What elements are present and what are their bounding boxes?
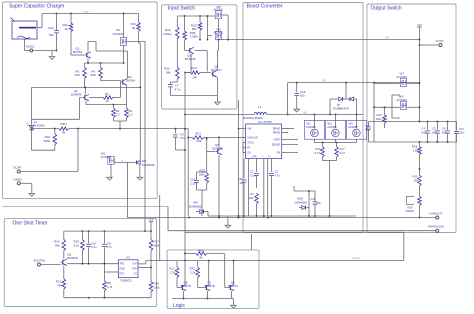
mosfet W2 AO3488 — [325, 121, 345, 140]
svg-text:DAN6638L: DAN6638L — [295, 201, 308, 205]
wire — [77, 129, 79, 172]
wire bottom rail — [208, 215, 356, 217]
wire — [127, 162, 129, 217]
mosfet W2 AO3488 — [101, 151, 115, 177]
svg-text:2.2n: 2.2n — [190, 182, 196, 186]
svg-text:PWRGOOD: PWRGOOD — [428, 225, 445, 229]
svg-text:R3: R3 — [105, 92, 109, 96]
ground — [225, 216, 231, 228]
svg-text:W10: W10 — [297, 197, 303, 201]
wire — [41, 264, 61, 266]
svg-text:U3: U3 — [126, 256, 130, 260]
svg-text:BC847B: BC847B — [181, 284, 191, 288]
svg-text:100u: 100u — [432, 132, 438, 135]
svg-text:BC847B: BC847B — [67, 256, 78, 260]
wire — [150, 251, 152, 281]
wire loop — [88, 42, 128, 79]
resistor R17 0.47 — [335, 143, 346, 158]
wire vertical 189 — [187, 129, 189, 216]
svg-text:56u: 56u — [49, 33, 54, 37]
wire u3 out — [138, 261, 164, 264]
svg-text:DAN6638L: DAN6638L — [189, 205, 203, 209]
wire — [150, 292, 152, 298]
wire — [71, 54, 85, 56]
svg-text:SENSE: SENSE — [272, 144, 281, 147]
svg-text:100k: 100k — [376, 117, 382, 121]
transistor Q1 BC854 — [73, 47, 91, 59]
wire caps top — [369, 121, 457, 123]
svg-text:20k: 20k — [249, 196, 254, 200]
resistor R20 98k — [164, 39, 179, 79]
resistor R22b 100k — [199, 169, 209, 184]
wire — [197, 172, 207, 177]
svg-text:R26: R26 — [198, 249, 204, 253]
ground — [215, 102, 221, 105]
terminal SHUTDN — [33, 259, 45, 266]
svg-text:R3N: R3N — [61, 122, 67, 126]
wire — [25, 39, 30, 51]
wire input rail — [177, 15, 215, 17]
wire — [419, 39, 421, 41]
svg-text:TRG: TRG — [120, 264, 125, 266]
wire 232 — [185, 231, 404, 233]
svg-text:C12: C12 — [311, 197, 316, 201]
svg-text:PRGM: PRGM — [273, 132, 280, 135]
resistor R1B 98k — [191, 16, 202, 31]
svg-text:Q7: Q7 — [207, 280, 211, 284]
wire — [85, 45, 125, 63]
svg-text:GND: GND — [120, 269, 125, 271]
diode W6 DAN6638L — [136, 159, 155, 167]
transistor Q9 BC847C — [228, 280, 238, 290]
resistor R16 1.5Meg — [163, 16, 180, 39]
svg-text:10u: 10u — [300, 94, 305, 98]
svg-text:22n: 22n — [317, 201, 322, 205]
svg-text:SHUTDN: SHUTDN — [33, 259, 45, 263]
capacitor C8c 4.7u — [102, 231, 112, 264]
wire — [294, 186, 315, 192]
wire top rail — [42, 11, 139, 15]
capacitor C3 4.7u — [269, 159, 280, 217]
wire — [374, 83, 420, 85]
terminal SCAP — [13, 166, 21, 173]
svg-text:+5V: +5V — [417, 23, 422, 27]
svg-text:+5V: +5V — [148, 218, 153, 222]
wire caps bottom — [369, 141, 457, 146]
wire — [323, 157, 337, 216]
wire — [70, 32, 72, 56]
svg-text:R23: R23 — [377, 113, 383, 117]
wire — [85, 79, 121, 97]
wire — [126, 85, 128, 105]
svg-text:100k: 100k — [199, 173, 206, 177]
capacitor C4 47u — [173, 129, 185, 146]
svg-text:L2: L2 — [34, 120, 38, 124]
svg-text:9k: 9k — [199, 255, 203, 259]
svg-text:5.1k: 5.1k — [74, 244, 80, 248]
svg-text:24k: 24k — [192, 75, 197, 79]
svg-text:CV: CV — [134, 274, 138, 276]
power +5V out — [417, 23, 422, 40]
svg-text:0.47: 0.47 — [315, 151, 321, 155]
svg-text:4.7u: 4.7u — [107, 245, 113, 249]
svg-text:Boost Converter: Boost Converter — [247, 3, 283, 9]
transistor Q2 BC847B — [71, 87, 89, 100]
svg-text:R21: R21 — [196, 131, 202, 135]
svg-text:22R: 22R — [75, 73, 80, 77]
svg-text:TS555CD: TS555CD — [120, 279, 132, 283]
wire — [32, 87, 80, 150]
diode W9 DAN6638L — [189, 201, 208, 217]
mosfet W4 AO3401 — [214, 28, 224, 40]
svg-text:U1 LT3756: U1 LT3756 — [258, 120, 272, 124]
wire — [184, 253, 195, 255]
svg-text:9k: 9k — [132, 26, 136, 30]
wire vertical 243 — [242, 143, 244, 153]
resistor R16b 0.47 — [315, 143, 325, 158]
wire riser 159.7 — [159, 195, 161, 261]
ground — [49, 57, 55, 60]
mosfet W3 AO3488 — [346, 121, 366, 140]
svg-text:GND2: GND2 — [13, 177, 22, 181]
wire ic left pins — [238, 128, 246, 153]
wire — [21, 171, 79, 173]
svg-text:R16: R16 — [165, 28, 171, 32]
wire — [218, 138, 220, 149]
svg-text:BC847B: BC847B — [205, 284, 215, 288]
resistor R22 520k — [44, 129, 57, 145]
wire — [207, 254, 228, 288]
svg-text:C4: C4 — [422, 127, 426, 131]
svg-text:GND: GND — [252, 156, 257, 158]
svg-text:D7: D7 — [337, 103, 341, 107]
svg-text:L1: L1 — [258, 105, 262, 109]
svg-text:Super Capacitor Charger: Super Capacitor Charger — [9, 4, 65, 10]
svg-text:C8: C8 — [366, 124, 370, 128]
wire — [216, 77, 218, 102]
svg-text:15k: 15k — [414, 179, 419, 183]
wire — [218, 155, 220, 216]
wire — [115, 161, 137, 163]
led L2 — [26, 120, 45, 130]
wire — [217, 19, 219, 32]
resistor R31 — [131, 14, 141, 32]
svg-text:82R: 82R — [91, 73, 96, 77]
svg-text:VIN: VIN — [247, 128, 251, 131]
svg-text:BC847B: BC847B — [71, 92, 82, 96]
svg-text:SD: SD — [247, 152, 251, 155]
resistor R1 2.2 — [112, 108, 121, 118]
svg-text:R24: R24 — [191, 66, 197, 70]
capacitor C12 22n — [311, 191, 322, 216]
resistor R14 94k — [54, 231, 66, 251]
frame One Shot Timer — [4, 219, 156, 307]
svg-text:BC854: BC854 — [73, 50, 83, 54]
mosfet W1 AO3488 — [304, 121, 324, 140]
svg-text:2.2k: 2.2k — [170, 271, 176, 275]
svg-text:THR: THR — [132, 269, 137, 271]
wire — [198, 278, 204, 288]
wire — [185, 40, 188, 50]
svg-text:100k: 100k — [154, 244, 161, 248]
svg-text:520k: 520k — [44, 139, 51, 143]
wire — [64, 289, 151, 298]
wire — [184, 261, 186, 285]
transistor Q3 BC854 — [121, 75, 135, 85]
capacitor C2 0.1u — [250, 159, 259, 189]
svg-text:RST: RST — [120, 274, 125, 276]
svg-text:SC: SC — [121, 161, 124, 163]
svg-text:1u: 1u — [240, 181, 244, 185]
svg-text:Output Switch: Output Switch — [371, 6, 402, 12]
transistor Q8 BC847B — [181, 280, 191, 290]
svg-text:100u: 100u — [459, 132, 465, 135]
svg-text:GND1: GND1 — [26, 45, 35, 49]
svg-text:FLASHG2: FLASHG2 — [34, 125, 46, 128]
wire — [197, 183, 207, 216]
capacitor C7 4.7u — [168, 79, 181, 92]
wire vertical 238.5 — [238, 100, 240, 216]
mosfet W7 AO3401 — [113, 14, 127, 46]
svg-text:SCAP: SCAP — [13, 166, 21, 170]
wire logic in — [164, 258, 404, 262]
wire — [403, 232, 405, 260]
svg-text:DRIVE: DRIVE — [273, 128, 281, 131]
svg-text:98k: 98k — [192, 27, 197, 31]
svg-text:4.7u: 4.7u — [175, 87, 181, 91]
wire bypass — [392, 95, 400, 118]
resistor R12 70k — [56, 279, 66, 290]
frame Logic — [167, 250, 259, 309]
ic U1 LT3756 — [246, 120, 282, 159]
wire — [37, 14, 42, 28]
wire — [419, 217, 436, 219]
photovoltaic cell PV1 — [11, 18, 38, 40]
wire — [31, 128, 59, 130]
wire — [187, 137, 238, 139]
svg-text:OUT: OUT — [132, 264, 137, 266]
resistor R3N 9k — [59, 122, 69, 135]
capacitor C34 — [48, 14, 59, 51]
resistor R2B 2.5M — [183, 16, 198, 40]
svg-text:70k: 70k — [57, 284, 62, 288]
svg-text:Input Switch: Input Switch — [168, 6, 195, 12]
svg-text:0.1u: 0.1u — [250, 174, 256, 178]
capacitor C16 10u — [294, 83, 305, 110]
svg-text:100u: 100u — [442, 132, 448, 135]
wire — [114, 118, 127, 129]
svg-text:AO3401: AO3401 — [113, 32, 124, 36]
svg-text:RCM8BKB7N: RCM8BKB7N — [333, 107, 349, 111]
svg-text:3324W: 3324W — [406, 209, 415, 213]
svg-text:R20: R20 — [408, 206, 413, 210]
ground — [137, 177, 143, 180]
svg-text:47u: 47u — [180, 136, 185, 140]
svg-text:BC847C: BC847C — [212, 68, 222, 72]
wire — [177, 278, 180, 288]
resistor R3a — [63, 14, 73, 32]
svg-text:50k: 50k — [197, 139, 202, 143]
mosfet W8b AO3406 — [397, 95, 408, 110]
svg-text:0.47: 0.47 — [340, 151, 346, 155]
wire — [176, 261, 178, 268]
capacitor C16 2.2n — [86, 231, 97, 264]
wire — [222, 15, 229, 40]
wire logic bottom — [172, 291, 234, 299]
svg-text:2.2: 2.2 — [116, 113, 120, 117]
resistor R17b 2.2k — [169, 267, 178, 278]
transistor Q6 BC847C — [211, 65, 222, 78]
wire — [373, 83, 420, 142]
svg-text:4.7k: 4.7k — [107, 285, 113, 289]
capacitor C8 56u — [365, 122, 371, 143]
svg-text:2.2k: 2.2k — [190, 271, 196, 275]
svg-text:BC854: BC854 — [127, 79, 136, 83]
svg-text:2.5Mb: 2.5Mb — [190, 35, 198, 39]
svg-text:FB: FB — [277, 152, 280, 155]
transistor Q7 BC847B — [205, 280, 215, 290]
svg-text:DAN6638L: DAN6638L — [142, 163, 156, 167]
wire — [139, 32, 141, 159]
wire — [63, 266, 65, 279]
resistor R26 10k — [196, 249, 207, 260]
terminal PWRGOOD — [428, 225, 445, 233]
resistor R7 1k — [89, 92, 120, 103]
capacitor C8b 1u — [238, 159, 246, 217]
svg-text:3.3k: 3.3k — [413, 149, 419, 153]
svg-text:1k: 1k — [65, 27, 69, 31]
wire ost top rail — [64, 230, 152, 232]
svg-text:C34: C34 — [48, 26, 54, 30]
svg-text:Q8: Q8 — [184, 280, 188, 284]
wire — [419, 155, 421, 176]
wire — [194, 51, 207, 72]
svg-text:C6: C6 — [442, 127, 446, 131]
wire — [315, 139, 357, 143]
wire — [139, 158, 141, 160]
frame Super Capacitor Charger — [3, 2, 158, 199]
svg-text:R18: R18 — [412, 145, 418, 149]
resistor R20t 3324 — [406, 186, 422, 218]
ground logic — [231, 299, 237, 309]
resistor R15 5.1k — [74, 231, 85, 251]
frame Input Switch — [162, 5, 237, 109]
resistor R28 100k — [149, 281, 160, 292]
svg-text:2.2n: 2.2n — [91, 245, 97, 249]
wire base rail — [67, 251, 118, 265]
wire — [69, 128, 189, 130]
svg-text:9k: 9k — [62, 131, 66, 135]
wire 87 — [32, 87, 142, 89]
wire ic right pins — [282, 129, 298, 153]
svg-text:W9: W9 — [193, 201, 198, 205]
svg-text:GNDOUT: GNDOUT — [430, 212, 443, 216]
wire pwrgood — [168, 230, 436, 232]
diode W10 DAN6638L — [295, 191, 310, 216]
terminal GND1 — [26, 45, 35, 53]
svg-text:100k: 100k — [154, 286, 161, 290]
svg-text:GATE: GATE — [274, 139, 281, 142]
ground — [294, 109, 300, 112]
svg-text:BC847C: BC847C — [228, 284, 238, 288]
transistor Q5 BC847B — [61, 253, 78, 266]
mosfet W7b AO3406 — [397, 72, 408, 87]
wire — [208, 261, 210, 285]
wire boost top — [288, 81, 420, 84]
wire ic bottom pins — [249, 159, 268, 217]
capacitor C6 100u — [442, 122, 450, 143]
terminal GND2 — [13, 177, 22, 184]
resistor R2 2.2 — [125, 105, 133, 118]
svg-text:1.5Meg: 1.5Meg — [163, 32, 172, 36]
wire u3 thr — [138, 267, 151, 269]
wire pwrgood riser — [2, 207, 168, 231]
ground — [29, 194, 35, 197]
wire — [104, 264, 118, 272]
resistor R24 24k — [184, 66, 211, 80]
wire — [33, 50, 57, 57]
wire — [267, 113, 363, 116]
svg-text:VOUT: VOUT — [436, 39, 445, 43]
diode D7 RCM8BKB — [329, 82, 356, 115]
ground — [107, 177, 113, 180]
wire — [217, 40, 218, 71]
svg-text:100u: 100u — [421, 132, 427, 135]
resistor R27 100k — [149, 231, 160, 251]
wire — [185, 113, 254, 115]
svg-text:BC857B: BC857B — [185, 57, 196, 61]
svg-text:94k: 94k — [55, 244, 60, 248]
wire — [199, 30, 201, 40]
svg-text:Q9: Q9 — [231, 280, 235, 284]
svg-text:CH/UVLO: CH/UVLO — [247, 137, 258, 140]
resistor R25 2.2k — [190, 261, 200, 278]
wire — [315, 115, 357, 129]
frame Boost Converter — [243, 3, 363, 233]
capacitor C16b 2.2n — [190, 177, 199, 187]
wire — [139, 164, 141, 177]
resistor R23 100k — [376, 107, 387, 129]
power +5V ost — [148, 218, 153, 232]
svg-text:SCAP: SCAP — [83, 11, 89, 14]
svg-text:W6: W6 — [142, 159, 147, 163]
svg-text:+5V: +5V — [385, 37, 390, 39]
wire +5V long rail — [218, 37, 420, 40]
capacitor C4b 100u — [421, 122, 430, 143]
svg-text:R8: R8 — [107, 281, 111, 285]
wire — [419, 40, 439, 122]
wire 243-250 — [251, 234, 253, 250]
capacitor C5 100u — [432, 122, 440, 143]
resistor R8 4.7k — [103, 272, 113, 298]
wire — [176, 146, 186, 150]
resistor R4 20k — [249, 192, 258, 216]
svg-text:PWRGD: PWRGD — [352, 258, 361, 260]
transistor Q17 BC857B — [185, 47, 196, 61]
wire long v145 — [127, 41, 145, 231]
ic U3 TS555 — [118, 256, 138, 283]
resistor R19 15k — [413, 175, 422, 187]
svg-text:C5: C5 — [432, 127, 436, 131]
svg-text:56u: 56u — [365, 128, 370, 132]
svg-text:RT: RT — [247, 147, 251, 150]
svg-text:SYNC: SYNC — [247, 142, 254, 145]
frame Output Switch — [367, 4, 456, 233]
svg-text:+5V: +5V — [322, 81, 327, 83]
resistor R18b 3.3k — [412, 145, 421, 155]
wire — [21, 183, 32, 193]
wire — [185, 54, 191, 73]
